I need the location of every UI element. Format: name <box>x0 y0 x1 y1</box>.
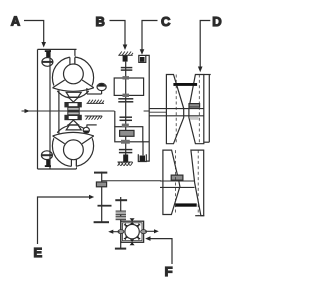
svg-text:D: D <box>212 14 221 29</box>
svg-text:E: E <box>34 245 43 260</box>
svg-text:B: B <box>96 14 105 29</box>
svg-text:F: F <box>165 264 173 279</box>
svg-text:A: A <box>11 14 21 29</box>
svg-text:C: C <box>161 14 171 29</box>
